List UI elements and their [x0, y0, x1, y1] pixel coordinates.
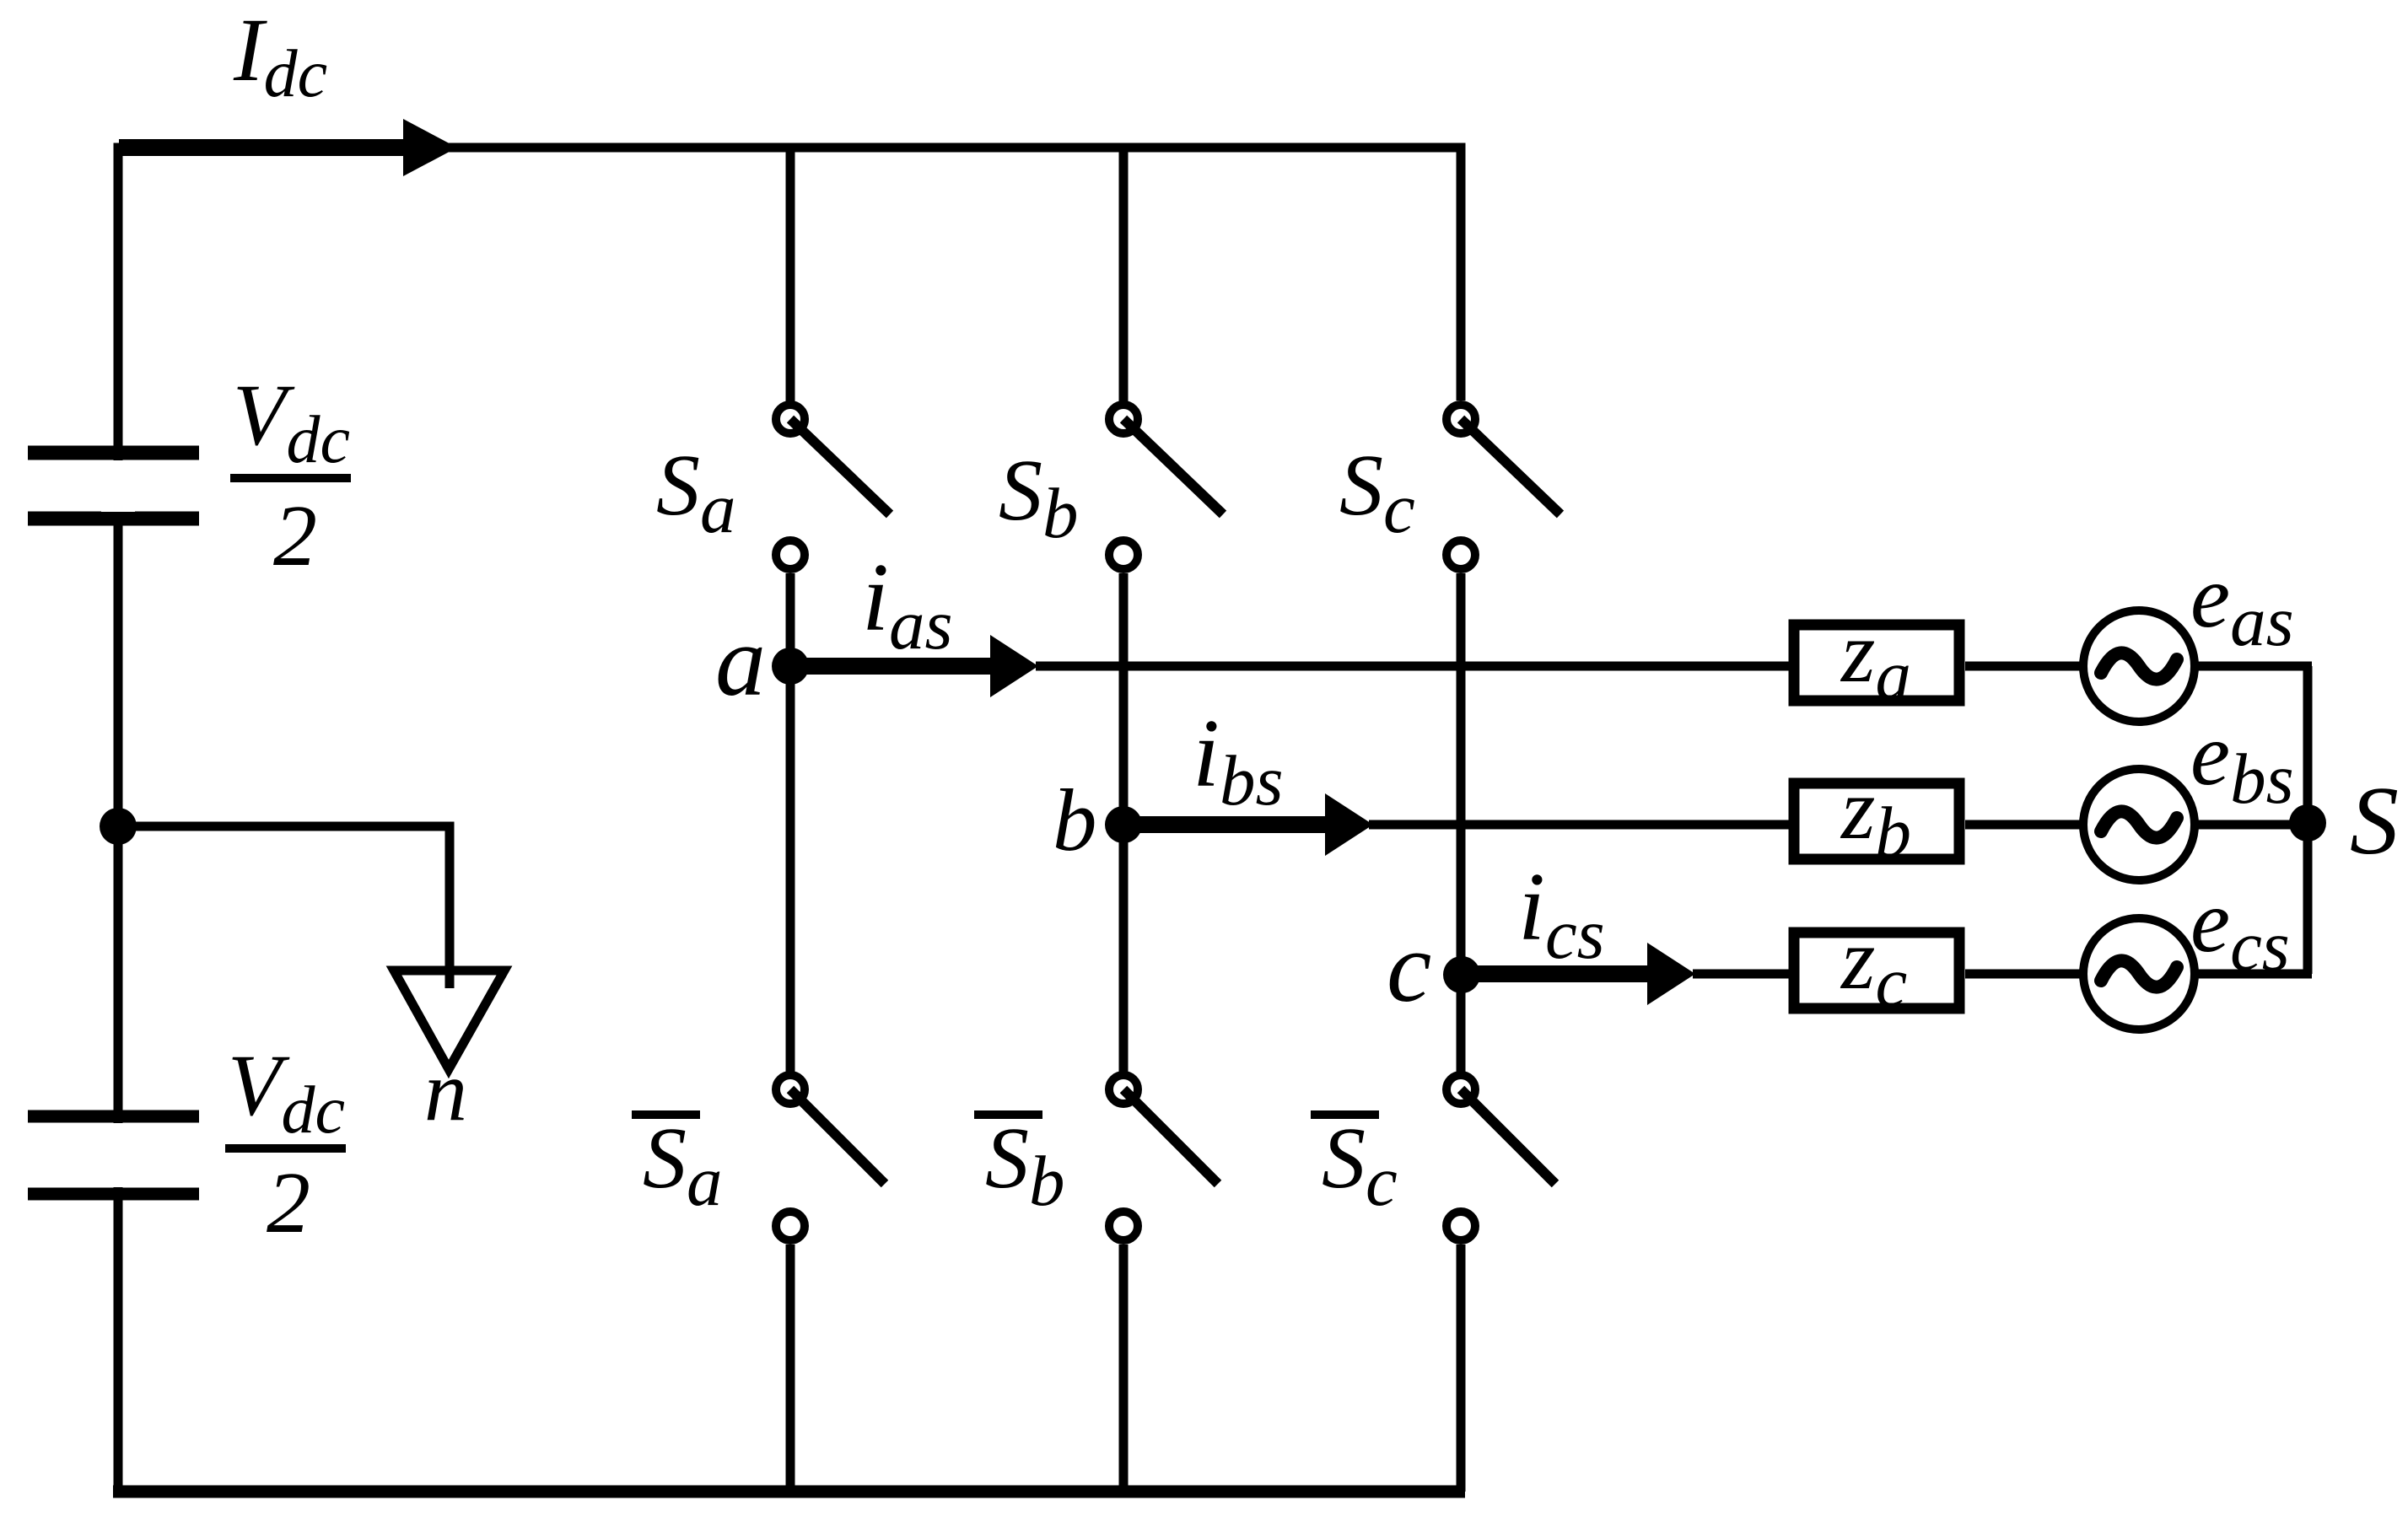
svg-text:c: c	[1387, 911, 1431, 1023]
svg-text:2: 2	[273, 487, 317, 584]
svg-text:a: a	[715, 605, 766, 717]
svg-text:n: n	[424, 1044, 467, 1139]
svg-text:S: S	[2350, 767, 2399, 875]
svg-text:b: b	[1053, 771, 1097, 869]
svg-text:2: 2	[267, 1154, 310, 1251]
